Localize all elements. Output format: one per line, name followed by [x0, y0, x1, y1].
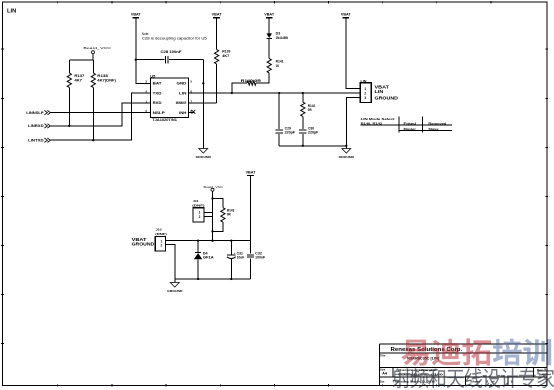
- svg-text:R140 0R: R140 0R: [241, 79, 262, 83]
- capacitor C30 220pF: [299, 127, 318, 146]
- svg-text:GF1A: GF1A: [203, 256, 215, 260]
- table LIN mode select: [361, 116, 453, 132]
- wire VBAT feed: [250, 176, 252, 241]
- svg-text:LINNSLP: LINNSLP: [26, 111, 44, 115]
- no-connect X on INH pin: [189, 110, 196, 114]
- svg-text:D3: D3: [276, 32, 281, 36]
- power Board_VCC (pull-ups): [83, 46, 112, 60]
- svg-text:Master: Master: [404, 127, 417, 131]
- power VBAT (D3): [264, 13, 274, 18]
- wire VBAT to C28 and U5 BAT pin: [135, 18, 151, 84]
- IC U5 TJA1020 LIN transceiver: [145, 74, 192, 122]
- note C28: [142, 32, 207, 41]
- ground (LIN connector): [339, 149, 355, 160]
- svg-text:4K7: 4K7: [74, 78, 82, 82]
- svg-text:4K7(DNF): 4K7(DNF): [97, 78, 116, 82]
- svg-text:R141: R141: [276, 60, 284, 64]
- svg-text:10uF: 10uF: [237, 256, 244, 260]
- svg-text:BAT: BAT: [153, 82, 162, 86]
- wire GND net (C28 / U5 GND pin to ground): [202, 60, 204, 149]
- port LINNSLP: [26, 110, 50, 114]
- svg-text:2: 2: [199, 215, 201, 219]
- svg-text:1: 1: [199, 211, 201, 215]
- svg-text:U5: U5: [150, 74, 155, 78]
- svg-text:R139: R139: [222, 50, 230, 54]
- svg-text:C28 100nF: C28 100nF: [161, 50, 182, 54]
- resistor R141 1K: [267, 59, 284, 75]
- svg-text:LINTXD: LINTXD: [28, 138, 44, 142]
- connector LIN header: [360, 79, 398, 103]
- svg-text:1: 1: [364, 87, 366, 91]
- svg-text:A4: A4: [382, 372, 387, 376]
- svg-text:1: 1: [161, 239, 163, 243]
- svg-text:4K7: 4K7: [222, 54, 229, 58]
- svg-text:VBAT: VBAT: [246, 171, 256, 175]
- svg-text:GROUND: GROUND: [375, 96, 399, 101]
- svg-text:NSLP: NSLP: [153, 111, 166, 115]
- resistor R140 0R: [232, 74, 269, 93]
- power Board_VCC (via J11): [204, 185, 224, 199]
- watermark row2: [392, 368, 554, 388]
- power VBAT (R139): [212, 13, 222, 18]
- svg-text:220pF: 220pF: [285, 131, 295, 135]
- svg-text:GROUND: GROUND: [167, 289, 183, 293]
- svg-text:3: 3: [364, 96, 366, 100]
- svg-text:C28 is decoupling capacitor fo: C28 is decoupling capacitor for U5: [142, 36, 207, 40]
- svg-text:2: 2: [364, 91, 366, 95]
- wire battery ground bus: [175, 278, 251, 280]
- resistor R142 0R: [301, 93, 316, 129]
- wire NSLP net: [51, 112, 151, 114]
- svg-text:Note:: Note:: [142, 32, 149, 36]
- port LINTXD: [28, 138, 50, 142]
- svg-text:Date:: Date:: [380, 380, 385, 384]
- capacitor C29 220pF: [276, 93, 295, 146]
- resistor R137 4K7: [67, 60, 84, 127]
- svg-text:0R: 0R: [227, 213, 231, 217]
- diode D4 GF1A: [194, 241, 215, 279]
- svg-text:R137: R137: [74, 74, 84, 78]
- svg-text:TJA1020T/N1: TJA1020T/N1: [152, 118, 177, 122]
- wire Board_VCC rail: [69, 59, 93, 61]
- power VBAT (battery input): [246, 171, 256, 176]
- power VBAT (U5 supply): [131, 13, 141, 18]
- connector J10 (DNF): [132, 227, 167, 251]
- svg-text:R143: R143: [227, 208, 235, 212]
- svg-text:(DNF): (DNF): [192, 204, 204, 208]
- svg-text:Board_VCC: Board_VCC: [83, 46, 112, 50]
- svg-text:+: +: [234, 251, 236, 255]
- svg-text:GND: GND: [177, 82, 188, 86]
- svg-text:1K: 1K: [276, 64, 280, 68]
- svg-text:GROUND: GROUND: [196, 155, 212, 159]
- title block: [379, 344, 547, 385]
- svg-text:220pF: 220pF: [308, 131, 318, 135]
- svg-text:Removed: Removed: [428, 121, 446, 125]
- svg-text:VBAT: VBAT: [341, 13, 351, 17]
- wire J10 pin2 to ground: [166, 245, 175, 283]
- svg-text:R138: R138: [97, 74, 108, 78]
- svg-text:2: 2: [161, 244, 163, 248]
- svg-text:TXD: TXD: [153, 91, 163, 95]
- svg-text:Title: Title: [380, 354, 386, 358]
- power VBAT (LIN connector): [341, 13, 351, 18]
- svg-text:R142: R142: [308, 104, 316, 108]
- resistor R143 0R: [213, 199, 235, 232]
- svg-text:LIN: LIN: [375, 89, 384, 94]
- svg-text:100nF: 100nF: [255, 256, 265, 260]
- wire VBAT to LIN pin1: [346, 18, 361, 89]
- capacitor C32 100nF: [247, 241, 265, 279]
- svg-text:LINRXD: LINRXD: [28, 124, 44, 128]
- svg-text:J10: J10: [156, 227, 162, 231]
- diode D3 1N4148W: [266, 18, 288, 59]
- svg-text:0R: 0R: [308, 108, 312, 112]
- wire TXD net: [51, 93, 151, 140]
- svg-text:LIN: LIN: [179, 91, 187, 95]
- svg-text:VBAT: VBAT: [131, 13, 141, 17]
- ground (U5): [196, 149, 212, 160]
- wire LIN net: [189, 92, 361, 94]
- label LIN section: [7, 8, 16, 14]
- port LINRXD: [28, 124, 50, 128]
- svg-text:VBAT: VBAT: [264, 13, 274, 17]
- svg-text:INH: INH: [179, 111, 187, 115]
- resistor R138 4K7(DNF): [91, 60, 116, 141]
- wire LIN filter ground bus: [279, 145, 347, 147]
- svg-text:LIN: LIN: [7, 8, 16, 14]
- svg-text:J11: J11: [193, 199, 199, 203]
- svg-text:1N4148W: 1N4148W: [276, 36, 289, 40]
- svg-text:LIN: LIN: [361, 79, 368, 83]
- svg-text:Slave: Slave: [428, 127, 438, 131]
- svg-text:MWAKE: MWAKE: [176, 101, 187, 105]
- resistor R139 4K7: [215, 18, 231, 103]
- capacitor C31 10uF: [227, 241, 244, 279]
- svg-text:RXD: RXD: [153, 101, 163, 105]
- wire RXD net: [51, 103, 151, 126]
- connector J11 (DNF): [192, 199, 212, 222]
- svg-text:GROUND: GROUND: [339, 155, 355, 159]
- svg-text:Fitted: Fitted: [404, 121, 417, 125]
- ground (battery): [167, 283, 183, 294]
- watermark row1: [401, 338, 551, 365]
- wire Board_VCC feed: [211, 197, 213, 242]
- capacitor C28 100nF: [136, 50, 204, 63]
- wire battery positive bus: [166, 240, 251, 242]
- svg-text:VBAT: VBAT: [212, 13, 222, 17]
- svg-text:GROUND: GROUND: [132, 241, 155, 246]
- svg-text:(DNF): (DNF): [155, 232, 167, 236]
- wire LIN connector pin3 to ground: [346, 97, 360, 148]
- wire MWAKE net: [189, 102, 217, 104]
